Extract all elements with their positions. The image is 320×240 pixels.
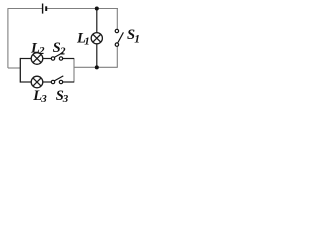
switch S2 (51, 52, 63, 60)
wire bottom branch right segment (63, 81, 74, 83)
wire top branch mid segment (43, 58, 52, 60)
wire left vertical (7, 9, 9, 69)
wire L1 branch lower vertical (96, 44, 98, 68)
node junction dot bottom (95, 65, 99, 69)
svg-text:3: 3 (62, 93, 69, 105)
wire bottom branch left segment (20, 81, 31, 83)
wire right bus vertical (73, 58, 75, 83)
wire top-left horizontal (battery left lead) (8, 8, 43, 10)
switch S3 (51, 76, 63, 84)
wire right vertical lower (S1 to bottom rail) (116, 46, 118, 67)
wire L1 branch upper vertical (96, 9, 98, 33)
svg-text:3: 3 (40, 93, 47, 105)
battery cell short plate (45, 6, 47, 11)
battery cell long plate (42, 4, 44, 14)
wire top branch left segment (20, 58, 31, 60)
lamp L1 (91, 33, 102, 44)
wire bottom rail (right bus to S1 column) (74, 66, 118, 68)
wire top branch right segment (63, 58, 74, 60)
wire top-right horizontal (battery right lead to corner) (47, 8, 118, 10)
lamp L3 (31, 76, 43, 88)
svg-text:2: 2 (59, 46, 66, 58)
svg-text:2: 2 (38, 45, 45, 57)
wire left mid connector (8, 67, 20, 69)
wire bottom branch mid segment (43, 81, 52, 83)
switch S1 (115, 29, 123, 46)
svg-text:1: 1 (134, 33, 140, 45)
lamp L2 (31, 53, 43, 65)
svg-text:1: 1 (84, 36, 90, 48)
node junction dot top (95, 7, 99, 11)
wire right vertical upper (corner to S1) (116, 9, 118, 30)
wire left bus vertical (black) (19, 58, 21, 83)
